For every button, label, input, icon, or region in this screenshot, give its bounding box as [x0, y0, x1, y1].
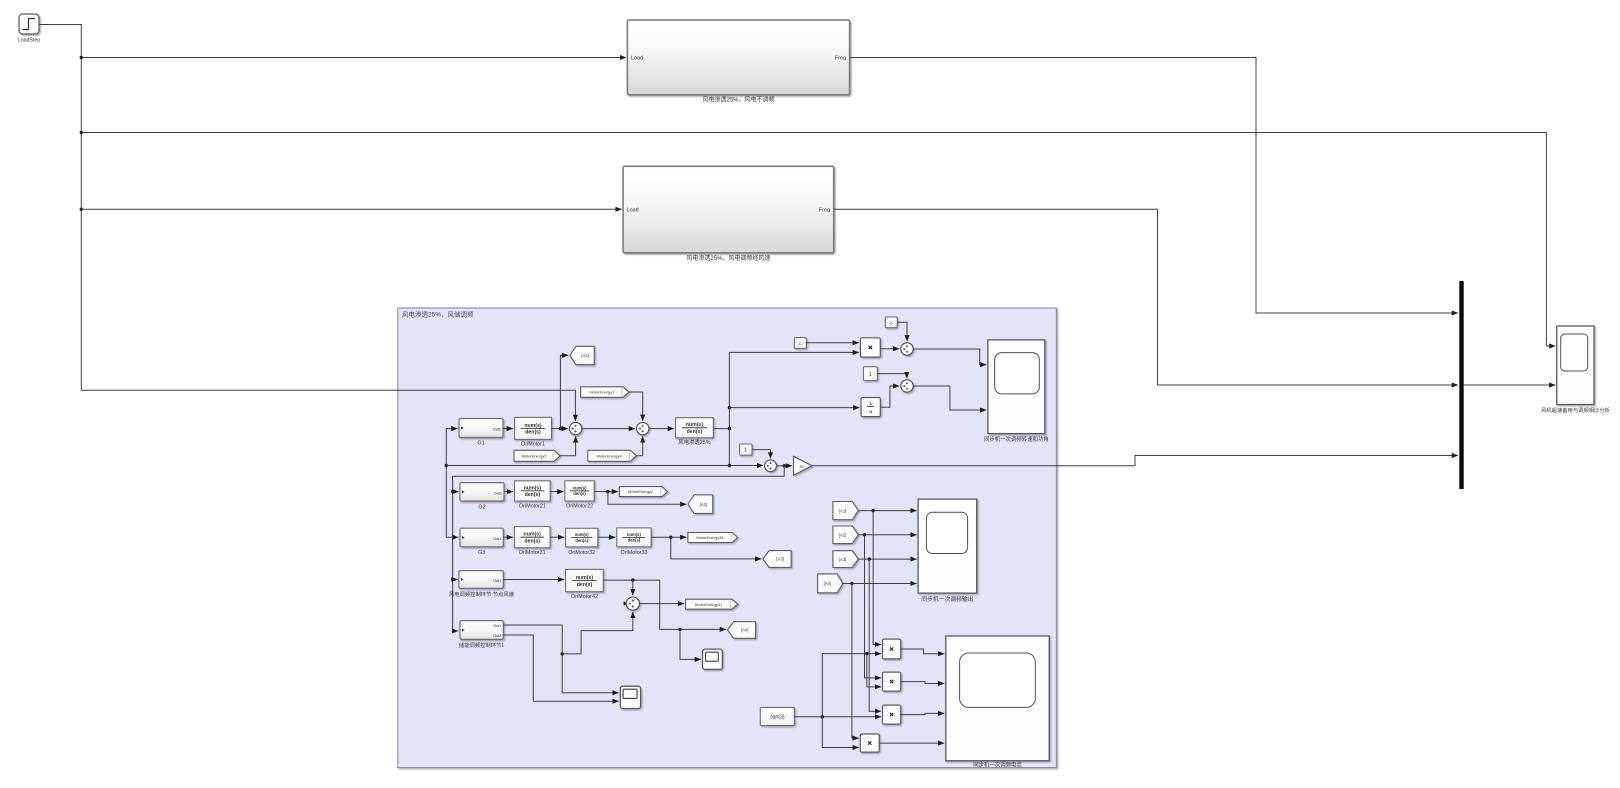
wire A1 down to P1 [873, 511, 881, 645]
svg-text:den(s): den(s) [575, 538, 588, 543]
transfer fcn OriMotor33 [617, 528, 651, 547]
scope 同步机一次调频转速和功角 [988, 340, 1045, 434]
subsystem 风电调频控制环节 [459, 571, 503, 589]
wire reciprocal to sumB [880, 386, 899, 407]
tag goto A2 [688, 495, 713, 514]
svg-text:MotorEnergy41: MotorEnergy41 [695, 602, 723, 607]
wire TF to divide in [729, 407, 859, 409]
transfer fcn TF 风电渗透25% [676, 418, 714, 438]
wire MotorEnergy1 to sum1 bottom [560, 436, 576, 455]
transfer fcn OriMotor42 [566, 569, 604, 591]
wire -C- to product [806, 342, 859, 344]
wire product to sumA [880, 348, 899, 350]
constant -C- left [794, 338, 806, 349]
svg-text:同步机一次调频转速和功角: 同步机一次调频转速和功角 [984, 435, 1049, 443]
wire LoadStep trunk to sum1 top [39, 25, 575, 421]
svg-text:[A1]: [A1] [839, 508, 846, 513]
svg-text:den(s): den(s) [525, 492, 541, 498]
svg-text:MotorEnergy1: MotorEnergy1 [521, 453, 547, 458]
svg-text:num(s): num(s) [573, 485, 588, 490]
svg-text:LoadStep: LoadStep [18, 38, 40, 44]
wire OriMotor31 to OriMotor32 [550, 536, 564, 538]
wire P3 to scope [901, 713, 945, 714]
wire sqrt3 down to P4 [822, 717, 858, 748]
tag from MotorEnergy3 [581, 387, 629, 398]
subsystem G3 [460, 528, 503, 547]
subsystem 储能调频控制环节 [460, 621, 503, 640]
wire A1 to scope [858, 510, 916, 512]
tag goto MotorEnergy2 [619, 487, 667, 497]
wire OriMotor33 to goto [651, 536, 686, 538]
svg-text:G2: G2 [478, 505, 485, 511]
wire to block2 Load [81, 208, 621, 210]
svg-text:num(s): num(s) [627, 532, 642, 537]
junction [559, 427, 562, 430]
svg-text:50: 50 [800, 465, 804, 469]
product productA [860, 338, 880, 357]
svg-text:储能调频控制环节1: 储能调频控制环节1 [459, 641, 504, 649]
transfer fcn OriMotor1 [515, 417, 552, 439]
svg-text:Out1: Out1 [494, 491, 502, 495]
svg-text:[A4]: [A4] [824, 581, 831, 586]
junction [868, 557, 871, 560]
scope 同步机一次调频输出 [918, 499, 977, 593]
wire block1 Freq to mux [850, 58, 1458, 314]
svg-text:sqrt(3): sqrt(3) [770, 715, 785, 721]
gain 50 [794, 456, 813, 475]
wire MotorEnergy3 to sum2 top [629, 392, 643, 421]
svg-text:OriMotor22: OriMotor22 [566, 504, 593, 510]
wire OriMotor21 to OriMotor22 [550, 491, 563, 493]
svg-text:[A3]: [A3] [776, 557, 783, 562]
svg-text:num(s): num(s) [576, 575, 594, 581]
svg-text:den(s): den(s) [628, 538, 641, 543]
svg-text:den(s): den(s) [577, 582, 593, 588]
wire v2 to G2 [453, 491, 459, 493]
svg-text:1: 1 [744, 448, 747, 454]
constant 1 [740, 444, 753, 455]
svg-text:OriMotor42: OriMotor42 [571, 594, 598, 600]
wire G2 to OriMotor21 [504, 491, 513, 493]
tag from A4 [818, 574, 843, 593]
tag from A1 [833, 502, 858, 520]
wire A2 down to P2 [865, 535, 882, 678]
tag from MotorEnergy1 [514, 450, 560, 461]
svg-text:num(s): num(s) [686, 422, 704, 428]
wire to block1 Load [81, 57, 626, 59]
svg-text:den(s): den(s) [524, 538, 540, 544]
wire sqrt3 to P3 [794, 716, 881, 718]
svg-text:-C-: -C- [889, 322, 895, 326]
wire P1 to scope [901, 649, 945, 654]
constant sqrt3 [760, 707, 794, 725]
tag goto A4 [728, 622, 756, 639]
svg-text:Out1: Out1 [493, 579, 501, 583]
wire A4 down to P4 [852, 584, 859, 739]
svg-text:风电渗透25%，风电调频经风速: 风电渗透25%，风电调频经风速 [686, 254, 770, 262]
constant -C- top [885, 317, 897, 328]
wire P4 to scope [879, 742, 944, 744]
subsystem 风电渗透25% 风电调频经风速 [623, 166, 834, 253]
svg-text:[A4]: [A4] [741, 628, 748, 633]
junction [783, 464, 786, 467]
svg-text:MotorEnergy31: MotorEnergy31 [696, 535, 724, 540]
svg-text:num(s): num(s) [524, 532, 542, 538]
svg-text:Freq: Freq [835, 56, 846, 62]
wire A3 to scope [858, 558, 916, 560]
junction [821, 715, 824, 718]
tag goto A3 [763, 551, 791, 568]
scope 风机超速备用与调频相比分析 [1557, 326, 1594, 405]
svg-text:1: 1 [869, 372, 872, 378]
junction [606, 490, 609, 493]
wire G1 to OriMotor1 [503, 428, 513, 430]
wire feedback to block5 [453, 466, 785, 631]
wire OriMotor22 to goto [594, 491, 618, 493]
svg-text:G1: G1 [477, 441, 484, 447]
junction [678, 628, 681, 631]
svg-text:G3: G3 [478, 550, 485, 556]
wire const to sumB top [877, 374, 907, 379]
tag goto MotorEnergy31 [688, 533, 738, 543]
tag from A2 [833, 526, 858, 544]
svg-text:OriMotor32: OriMotor32 [568, 550, 595, 556]
svg-text:OriMotor1: OriMotor1 [521, 442, 545, 448]
wire A2 to scope [858, 534, 916, 536]
transfer fcn OriMotor32 [566, 528, 598, 547]
svg-text:风电渗透25%，风电不调频: 风电渗透25%，风电不调频 [702, 96, 774, 104]
svg-text:den(s): den(s) [525, 430, 541, 436]
step source LoadStep [19, 14, 39, 34]
svg-text:den(s): den(s) [687, 429, 703, 435]
svg-text:num(s): num(s) [524, 423, 542, 429]
svg-text:同步机一次调频电流: 同步机一次调频电流 [973, 761, 1022, 769]
wire sum2 to TF [649, 428, 674, 430]
wire to sum3 top [632, 580, 634, 595]
wire to scope2 [680, 629, 701, 659]
junction [728, 427, 731, 430]
wire sum3 to goto [639, 603, 684, 605]
svg-text:num(s): num(s) [575, 532, 590, 537]
junction [728, 464, 731, 467]
svg-text:den(s): den(s) [573, 491, 586, 496]
wire OriMotor42 to goto A4 [603, 580, 726, 629]
junction [850, 582, 853, 585]
subsystem area 风电渗透25% 风储调频 [398, 308, 1057, 768]
svg-text:MotorEnergy2: MotorEnergy2 [628, 489, 654, 494]
subsystem G2 [460, 483, 504, 502]
constant 1b [863, 367, 877, 381]
junction [863, 533, 866, 536]
wire block4 to OriMotor42 [503, 579, 564, 581]
svg-text:风机超速备用与调频相比分析: 风机超速备用与调频相比分析 [1541, 406, 1611, 414]
sum sum3 [626, 597, 639, 610]
wire v2 to block4 [453, 579, 458, 581]
product P2 [883, 672, 901, 691]
wire TF down to bus [728, 429, 730, 466]
svg-text:-C-: -C- [798, 342, 804, 346]
wire to sum3 bottom [562, 612, 633, 654]
sum sum1 [569, 422, 581, 434]
junction [445, 464, 448, 467]
wire gain to mux [812, 456, 1458, 466]
reciprocal block [861, 398, 880, 417]
junction [80, 131, 83, 134]
wire TF to product in2 [729, 352, 858, 428]
svg-text:[A3]: [A3] [839, 557, 846, 562]
sum sum2 [637, 422, 649, 434]
svg-text:1: 1 [869, 401, 872, 406]
svg-text:同步机一次调频输出: 同步机一次调频输出 [921, 595, 973, 603]
svg-text:Freq: Freq [819, 207, 830, 213]
wire const1 to sum4 top [752, 450, 771, 459]
subsystem 风电渗透25% 风电不调频 [627, 20, 849, 95]
svg-text:风电调频控制环节 节点风速: 风电调频控制环节 节点风速 [449, 590, 515, 598]
wire v1 down to G3 in [446, 466, 458, 538]
tag from MotorEnergy4 [588, 450, 637, 461]
wire MotorEnergy4 to sum2 bottom [636, 436, 642, 455]
svg-text:OriMotor31: OriMotor31 [519, 550, 546, 556]
tag from A3 [833, 551, 858, 568]
scope small2 [703, 649, 723, 669]
wire sum1 to sum2 [582, 428, 635, 430]
svg-text:MotorEnergy3: MotorEnergy3 [589, 390, 615, 395]
wire block5 Out1 to scope1 [503, 625, 618, 693]
wire -C- to sumA top [897, 322, 907, 341]
wire block5 Out2 to scope1 [503, 635, 618, 701]
svg-text:风电渗透25%: 风电渗透25% [678, 438, 711, 446]
wire to goto A2 [608, 492, 686, 505]
wire sqrt3 up to P1 [822, 654, 881, 717]
junction [451, 578, 454, 581]
product P1 [883, 639, 901, 659]
tag goto A1 [570, 346, 594, 364]
svg-text:[A2]: [A2] [839, 533, 846, 538]
svg-text:MotorEnergy4: MotorEnergy4 [596, 453, 622, 458]
subsystem G1 [459, 419, 503, 438]
wire LoadStep to scope in1 [81, 133, 1555, 347]
wire v1 up to G1 in [446, 429, 457, 466]
junction [631, 578, 634, 581]
mux [1459, 281, 1463, 489]
wire block2 Freq to mux [834, 209, 1458, 385]
sum sumA [901, 343, 913, 355]
wire to goto A3 [671, 537, 762, 559]
svg-text:[A1]: [A1] [581, 353, 588, 358]
svg-text:风电渗透25%，风储调频: 风电渗透25%，风储调频 [402, 310, 474, 319]
wire OriMotor32 to OriMotor33 [598, 536, 616, 538]
wire to goto A1 [560, 355, 568, 428]
wire mux out to scope in2 [1464, 384, 1556, 386]
wire sum4 to gain [776, 465, 792, 467]
junction [451, 490, 454, 493]
junction [561, 652, 564, 655]
svg-text:OriMotor33: OriMotor33 [621, 550, 648, 556]
unconnected port mark sum3 [624, 601, 628, 605]
wire sumB to scopeTR in2 [913, 386, 986, 410]
wire A4 to scope [843, 583, 917, 585]
product P3 [883, 705, 901, 724]
wire P2 to scope [901, 682, 945, 684]
wire sumA to scopeTR in1 [913, 349, 986, 365]
junction [80, 208, 83, 211]
wire TF out [713, 428, 729, 430]
svg-text:OriMotor21: OriMotor21 [519, 504, 546, 510]
svg-text:Load: Load [627, 207, 639, 213]
junction [865, 652, 868, 655]
svg-text:Out1: Out1 [493, 427, 501, 431]
svg-text:Out1: Out1 [493, 537, 501, 541]
svg-text:[A2]: [A2] [700, 502, 707, 507]
wire A3 down to P3 [869, 559, 881, 711]
junction [669, 536, 672, 539]
transfer fcn OriMotor22 [565, 481, 594, 501]
junction [80, 56, 83, 59]
wire sqrt3 to P2 [867, 654, 881, 687]
junction [871, 509, 874, 512]
product P4 [860, 734, 879, 752]
transfer fcn OriMotor21 [515, 481, 551, 501]
tag goto MotorEnergy41 [686, 599, 738, 609]
junction [728, 406, 731, 409]
sum sumB [901, 380, 913, 392]
svg-text:Load: Load [631, 56, 643, 62]
svg-text:num(s): num(s) [524, 485, 542, 491]
transfer fcn OriMotor31 [514, 527, 550, 548]
scope 同步机一次调频电流 [946, 636, 1049, 761]
svg-text:Out1: Out1 [493, 624, 501, 628]
svg-text:Out2: Out2 [493, 634, 501, 638]
wire G3 to OriMotor31 [503, 536, 513, 538]
wire bus to sum4 [446, 465, 763, 467]
wire OriMotor1 to sum1 [552, 428, 568, 430]
sum sum4 [765, 460, 777, 472]
svg-text:u: u [869, 409, 872, 414]
scope small1 [620, 686, 640, 708]
